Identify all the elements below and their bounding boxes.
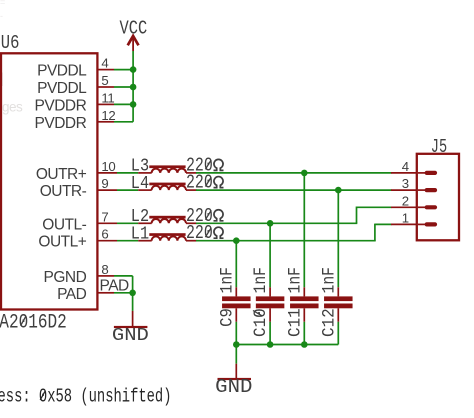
svg-text:12: 12	[101, 108, 115, 123]
svg-text:8: 8	[101, 262, 108, 277]
svg-text:ess: 0x58 (unshifted): ess: 0x58 (unshifted)	[0, 385, 172, 407]
svg-text:3: 3	[402, 176, 409, 191]
svg-text:7: 7	[101, 209, 108, 224]
svg-text:9: 9	[101, 176, 108, 191]
svg-text:PAD: PAD	[100, 277, 130, 294]
svg-text:PVDDL: PVDDL	[37, 80, 87, 97]
svg-text:PVDDL: PVDDL	[37, 63, 87, 80]
svg-text:J5: J5	[431, 136, 447, 158]
svg-text:L1: L1	[131, 224, 149, 245]
svg-text:1: 1	[402, 210, 409, 225]
svg-text:1nF: 1nF	[319, 267, 339, 294]
svg-text:=: =	[0, 0, 5, 7]
svg-text:4: 4	[101, 56, 108, 71]
svg-text:11: 11	[101, 90, 114, 105]
svg-text:1nF: 1nF	[285, 267, 305, 294]
svg-text:1nF: 1nF	[217, 267, 237, 294]
svg-text:PAD: PAD	[57, 286, 87, 303]
svg-text:ges: ges	[2, 100, 23, 115]
svg-text:-: -	[0, 11, 3, 21]
svg-text:OUTR-: OUTR-	[40, 183, 87, 200]
svg-text:A2016D2: A2016D2	[0, 311, 67, 334]
svg-text:OUTL-: OUTL-	[42, 216, 86, 233]
svg-text:6: 6	[101, 227, 108, 242]
svg-text:OUTR+: OUTR+	[36, 166, 87, 183]
svg-text:10: 10	[101, 159, 115, 174]
svg-text:OUTL+: OUTL+	[38, 234, 86, 251]
svg-text:U6: U6	[1, 32, 20, 54]
svg-text:PVDDR: PVDDR	[35, 115, 87, 132]
svg-text:PGND: PGND	[44, 269, 87, 286]
svg-text:1nF: 1nF	[251, 267, 271, 294]
svg-text:GND: GND	[215, 376, 252, 398]
svg-text:GND: GND	[112, 325, 149, 346]
svg-text:L4: L4	[131, 173, 149, 194]
svg-text:2: 2	[402, 193, 409, 208]
svg-text:C12: C12	[319, 308, 339, 337]
svg-text:PVDDR: PVDDR	[35, 97, 87, 114]
svg-text:C9: C9	[217, 308, 237, 327]
svg-text:C11: C11	[285, 308, 305, 337]
svg-text:4: 4	[402, 159, 409, 174]
svg-text:VCC: VCC	[120, 18, 148, 40]
svg-text:C10: C10	[251, 308, 271, 337]
svg-text:5: 5	[101, 73, 108, 88]
